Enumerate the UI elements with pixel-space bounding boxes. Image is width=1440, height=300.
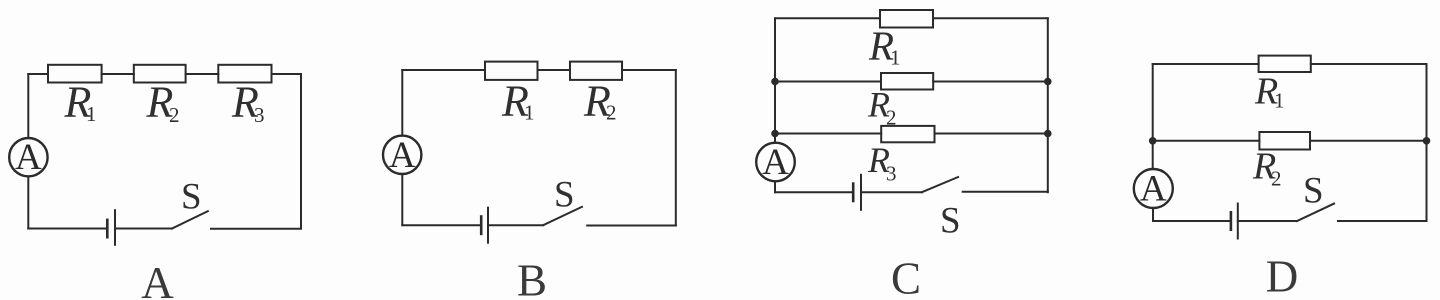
node dot right middle C [1044, 78, 1052, 86]
wire between R1 and R2 (A) [102, 73, 134, 75]
switch S blade D [1297, 204, 1334, 221]
wire ammeter to bottom D [1152, 208, 1154, 221]
battery cell D: short plate [1230, 212, 1233, 229]
switch S blade A [172, 211, 208, 228]
svg-text:1: 1 [890, 46, 901, 70]
ammeter A2 circle [383, 136, 421, 174]
wire battery to switch A [115, 228, 172, 230]
wire right vertical A [300, 74, 302, 229]
wire top-left segment B [402, 69, 485, 71]
battery cell B: long plate [487, 208, 489, 243]
svg-text:3: 3 [886, 162, 897, 186]
ammeter A4 circle [1134, 169, 1173, 208]
answer letter D [1266, 252, 1299, 300]
resistor R1 (D) [1259, 56, 1311, 72]
svg-text:1: 1 [1274, 89, 1285, 113]
ammeter A3 circle [756, 143, 795, 182]
resistor R3 (C) [881, 126, 934, 142]
wire battery to switch C [861, 191, 922, 193]
wire left vertical lower B [401, 174, 403, 225]
label S (C) [940, 201, 961, 242]
label S (B) [554, 175, 575, 216]
wire battery to switch B [488, 224, 543, 226]
svg-text:2: 2 [169, 103, 180, 127]
resistor R2 (C) [881, 73, 933, 90]
battery cell C: long plate [860, 175, 862, 210]
ammeter A3 letter [762, 142, 789, 183]
svg-text:S: S [181, 177, 202, 218]
label R2 (D) [1252, 146, 1282, 191]
wire right vertical C [1047, 18, 1049, 192]
node dot right third C [1044, 130, 1052, 138]
ammeter A4 letter [1140, 169, 1167, 210]
svg-text:A: A [389, 135, 416, 176]
label R1 (B) [501, 77, 535, 126]
resistor R3 (A) [218, 65, 271, 83]
wire left vertical lower A [27, 176, 29, 228]
wire middle branch right C [933, 81, 1048, 83]
resistor R1 (A) [48, 65, 102, 83]
wire middle branch left C [775, 81, 881, 83]
label R1 (A) [64, 78, 97, 127]
wire battery to switch D [1238, 220, 1297, 222]
svg-text:D: D [1266, 252, 1299, 300]
svg-text:S: S [940, 201, 961, 242]
label R1 (C) [868, 22, 901, 69]
wire middle branch left D [1153, 140, 1260, 142]
svg-text:2: 2 [886, 106, 897, 130]
label R2 (A) [146, 78, 180, 128]
wire top branch right C [933, 17, 1048, 19]
wire third branch left C [775, 133, 881, 135]
answer letter B [517, 256, 547, 300]
battery cell C: short plate [852, 184, 855, 201]
label R3 (C) [867, 140, 897, 186]
ammeter A1 letter [15, 137, 42, 178]
node dot left D [1149, 137, 1157, 145]
svg-text:1: 1 [524, 101, 535, 125]
answer letter A [141, 258, 174, 300]
svg-text:1: 1 [86, 102, 97, 126]
wire left vertical D [1152, 64, 1154, 169]
svg-text:2: 2 [1271, 166, 1282, 190]
wire left vertical upper A [27, 74, 29, 138]
svg-text:A: A [141, 258, 174, 300]
resistor R1 (B) [485, 62, 538, 80]
ammeter A1 circle [9, 138, 47, 176]
resistor R2 (A) [134, 65, 186, 83]
wire left vertical upper B [401, 70, 403, 136]
wire ammeter to bottom C [774, 181, 776, 192]
resistor R1 (C) [880, 10, 933, 28]
battery cell A: short plate [106, 220, 109, 237]
wire switch to corner B [587, 225, 676, 227]
label R2 (C) [867, 85, 897, 130]
wire between R1 and R2 (B) [538, 69, 571, 71]
battery cell D: long plate [1237, 204, 1239, 239]
wire third branch right C [935, 133, 1048, 135]
wire top-left segment A [28, 73, 48, 75]
wire bottom-left segment A [28, 228, 107, 230]
svg-text:A: A [15, 137, 42, 178]
svg-text:2: 2 [606, 101, 617, 125]
ammeter A2 letter [389, 135, 416, 176]
node dot left third C [771, 130, 779, 138]
svg-text:A: A [762, 142, 789, 183]
label R3 (A) [231, 78, 265, 128]
wire bottom-left segment C [775, 191, 853, 193]
svg-text:B: B [517, 256, 547, 300]
label S (A) [181, 177, 202, 218]
wire top-left segment D [1153, 63, 1259, 65]
svg-text:3: 3 [254, 103, 265, 127]
wire top branch left C [775, 17, 880, 19]
wire right vertical B [675, 70, 677, 225]
node dot left middle C [771, 78, 779, 86]
resistor R2 (D) [1259, 132, 1310, 150]
wire switch to corner D [1338, 220, 1427, 222]
wire bottom-left segment B [402, 224, 481, 226]
wire left vertical C [774, 18, 776, 142]
wire top-right segment B [622, 69, 676, 71]
svg-text:C: C [891, 254, 921, 300]
label R2 (B) [583, 77, 617, 126]
switch S blade B [543, 207, 582, 225]
label R1 (D) [1254, 71, 1285, 113]
wire right vertical D [1426, 64, 1428, 221]
switch S blade C [922, 177, 958, 192]
svg-text:A: A [1140, 169, 1167, 210]
wire bottom-left segment D [1153, 220, 1231, 222]
svg-text:S: S [1303, 170, 1324, 211]
node dot right D [1423, 137, 1431, 145]
wire switch to corner A [211, 228, 301, 230]
wire top-right segment A [272, 73, 302, 75]
answer letter C [891, 254, 921, 300]
wire switch to corner C [963, 191, 1048, 193]
wire middle branch right D [1310, 140, 1427, 142]
wire between R2 and R3 (A) [186, 73, 219, 75]
battery cell A: long plate [114, 210, 116, 245]
resistor R2 (B) [570, 62, 622, 80]
label S (D) [1303, 170, 1324, 211]
wire top-right segment D [1311, 63, 1427, 65]
svg-text:S: S [554, 175, 575, 216]
battery cell B: short plate [480, 217, 483, 234]
